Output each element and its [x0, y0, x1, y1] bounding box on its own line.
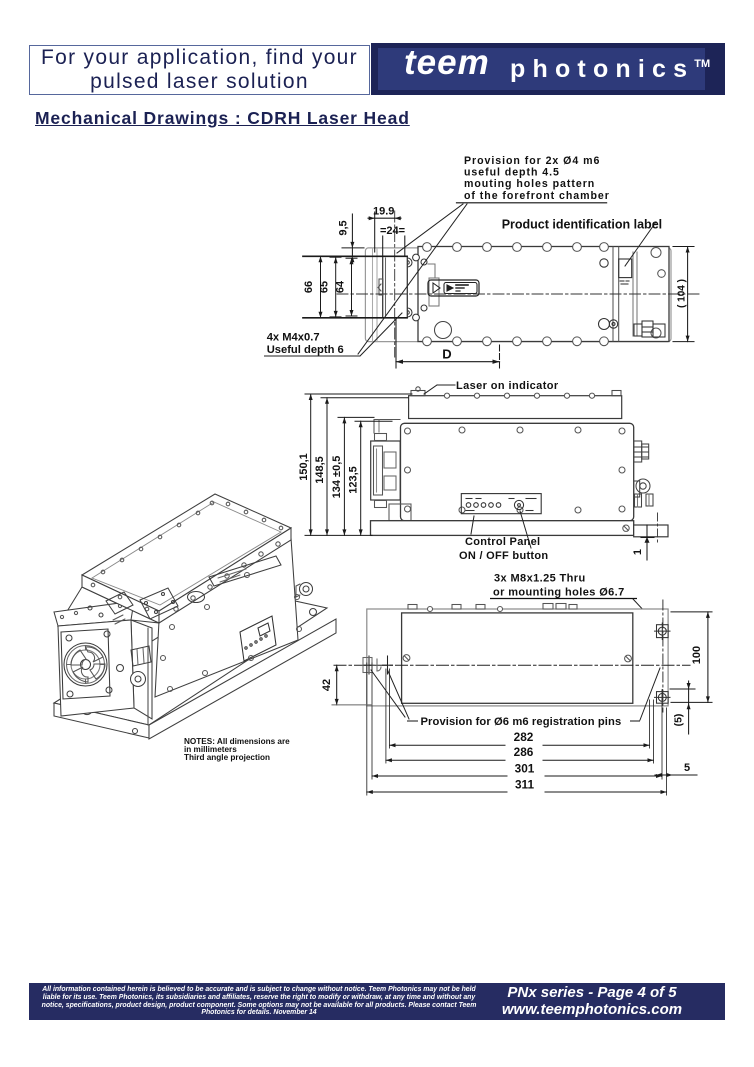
- svg-text:123,5: 123,5: [348, 466, 360, 494]
- svg-text:286: 286: [514, 745, 534, 759]
- svg-text:4x M4x0.7: 4x M4x0.7: [267, 332, 320, 344]
- svg-text:Useful depth 6: Useful depth 6: [267, 344, 344, 356]
- svg-text:=24=: =24=: [380, 225, 405, 237]
- svg-text:Control Panel: Control Panel: [465, 536, 540, 548]
- svg-text:150,1: 150,1: [298, 453, 310, 481]
- svg-text:64: 64: [335, 280, 347, 293]
- svg-text:useful depth 4.5: useful depth 4.5: [464, 167, 560, 179]
- svg-text:Product identification label: Product identification label: [502, 218, 662, 232]
- svg-text:3x M8x1.25 Thru: 3x M8x1.25 Thru: [494, 573, 586, 585]
- svg-text:301: 301: [515, 762, 535, 776]
- svg-text:311: 311: [515, 778, 534, 792]
- svg-text:5: 5: [684, 762, 690, 774]
- svg-text:D: D: [442, 347, 451, 362]
- svg-text:( 104 ): ( 104 ): [677, 279, 688, 308]
- svg-text:42: 42: [321, 679, 333, 691]
- svg-text:Third angle projection: Third angle projection: [184, 753, 270, 762]
- svg-text:19.9: 19.9: [373, 206, 394, 218]
- svg-text:(5): (5): [673, 714, 685, 727]
- svg-text:1: 1: [632, 549, 644, 555]
- svg-text:of the forefront chamber: of the forefront chamber: [464, 190, 610, 202]
- svg-text:148,5: 148,5: [314, 456, 326, 484]
- svg-text:Laser on indicator: Laser on indicator: [456, 380, 559, 392]
- svg-text:Provision for Ø6 m6 registrati: Provision for Ø6 m6 registration pins: [421, 716, 622, 728]
- svg-text:134 ±0,5: 134 ±0,5: [331, 456, 343, 499]
- svg-text:mouting holes pattern: mouting holes pattern: [464, 178, 595, 190]
- svg-text:100: 100: [691, 646, 703, 664]
- svg-text:9,5: 9,5: [338, 220, 350, 235]
- svg-text:ON / OFF button: ON / OFF button: [459, 550, 548, 562]
- svg-text:Provision for 2x Ø4 m6: Provision for 2x Ø4 m6: [464, 155, 600, 167]
- svg-text:66: 66: [303, 281, 315, 293]
- svg-text:or mounting holes Ø6.7: or mounting holes Ø6.7: [493, 587, 625, 599]
- svg-text:65: 65: [319, 281, 331, 293]
- svg-text:282: 282: [514, 730, 534, 744]
